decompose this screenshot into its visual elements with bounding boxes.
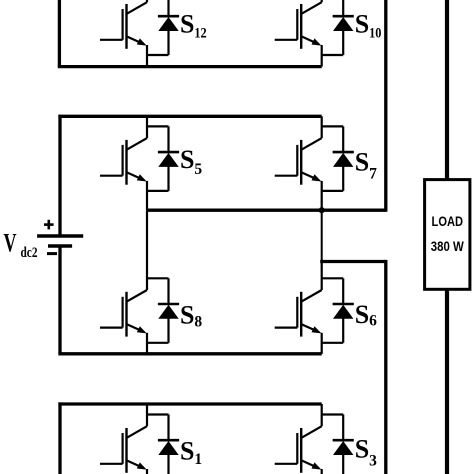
wire top DC rail of middle bridge bbox=[58, 115, 321, 118]
svg-text:S: S bbox=[180, 10, 194, 39]
wire collector of S10 bbox=[321, 0, 323, 2]
wire diode anode lead of S8 bbox=[167, 318, 169, 343]
diode D7 (antiparallel of S7) bbox=[333, 152, 354, 167]
svg-text:S: S bbox=[355, 434, 369, 463]
transistor S12 (IGBT) bbox=[100, 2, 147, 49]
svg-text:380 W: 380 W bbox=[431, 239, 464, 254]
wire collector of S12 bbox=[146, 0, 148, 2]
svg-text:6: 6 bbox=[369, 313, 377, 330]
diode D8 (antiparallel of S8) bbox=[158, 304, 179, 319]
wire load top lead bbox=[445, 0, 449, 181]
wire collector of S8 bbox=[146, 210, 148, 290]
wire left rail of bottom bridge bbox=[58, 402, 61, 474]
svg-text:10: 10 bbox=[369, 26, 381, 42]
wire diode cathode lead of S10 bbox=[342, 0, 344, 16]
wire diode anode lead of S3 bbox=[342, 454, 344, 474]
wire collector node to diode cathode of S1 bbox=[147, 413, 169, 415]
wire collector of S3 bbox=[321, 404, 323, 426]
wire emitter of S3 bbox=[321, 469, 323, 474]
svg-text:dc2: dc2 bbox=[21, 245, 38, 261]
wire diode cathode lead of S1 bbox=[167, 415, 169, 441]
wire load bottom lead bbox=[445, 289, 449, 474]
wire diode anode to emitter of S7 bbox=[322, 190, 344, 192]
wire emitter of S12 bbox=[146, 45, 148, 67]
transistor S10 (IGBT) bbox=[275, 2, 322, 49]
transistor S7 (IGBT) bbox=[275, 138, 322, 185]
diode D6 (antiparallel of S6) bbox=[333, 304, 354, 319]
wire diode anode lead of S1 bbox=[167, 454, 169, 474]
battery V_dc2 bbox=[37, 236, 83, 246]
wire emitter of S5 bbox=[146, 181, 148, 210]
svg-text:V: V bbox=[4, 229, 17, 258]
wire diode cathode lead of S6 bbox=[342, 278, 344, 304]
svg-text:S: S bbox=[355, 300, 369, 329]
transistor S8 (IGBT) bbox=[100, 290, 147, 337]
wire left DC rail of top bridge bbox=[58, 0, 61, 67]
label + terminal bbox=[44, 220, 54, 230]
wire bottom DC rail of top bridge bbox=[58, 65, 322, 68]
wire collector node to diode cathode of S8 bbox=[147, 277, 169, 279]
wire diode anode to emitter of S6 bbox=[322, 342, 344, 344]
wire collector of S1 bbox=[146, 404, 148, 426]
svg-text:S: S bbox=[180, 300, 194, 329]
svg-text:8: 8 bbox=[194, 313, 202, 330]
wire diode anode to emitter of S8 bbox=[147, 342, 169, 344]
wire collector node to diode cathode of S6 bbox=[322, 277, 344, 279]
wire diode cathode lead of S5 bbox=[167, 126, 169, 152]
wire diode cathode lead of S7 bbox=[342, 126, 344, 152]
svg-text:S: S bbox=[180, 145, 194, 174]
wire top DC rail of bottom bridge bbox=[58, 402, 321, 405]
svg-text:1: 1 bbox=[194, 451, 202, 468]
wire collector node to diode cathode of S7 bbox=[322, 125, 344, 127]
wire S6 collector node to rail B bbox=[320, 260, 386, 263]
transistor S1 (IGBT) bbox=[100, 426, 147, 473]
wire collector of S5 bbox=[146, 116, 148, 138]
wire diode anode lead of S10 bbox=[342, 30, 344, 55]
wire left rail lower (battery - to bottom rail) bbox=[58, 246, 61, 354]
diode D10 (antiparallel of S10) bbox=[333, 16, 354, 31]
wire diode anode lead of S6 bbox=[342, 318, 344, 343]
diode D12 (antiparallel of S12) bbox=[158, 16, 179, 31]
transistor S6 (IGBT) bbox=[275, 290, 322, 337]
svg-text:7: 7 bbox=[369, 166, 377, 183]
transistor S5 (IGBT) bbox=[100, 138, 147, 185]
svg-text:5: 5 bbox=[194, 161, 202, 178]
wire emitter of S1 bbox=[146, 469, 148, 474]
wire left rail upper (to battery +) bbox=[58, 115, 61, 237]
wire emitter of S10 bbox=[321, 45, 323, 67]
wire diode anode lead of S12 bbox=[167, 30, 169, 55]
wire diode anode lead of S7 bbox=[342, 166, 344, 191]
transistor S3 (IGBT) bbox=[275, 426, 322, 473]
wire collector node to diode cathode of S3 bbox=[322, 413, 344, 415]
wire mid-point rail of middle bridge bbox=[147, 209, 386, 212]
wire emitter of S6 bbox=[321, 333, 323, 354]
svg-text:LOAD: LOAD bbox=[432, 214, 464, 229]
wire collector of S7 bbox=[321, 116, 323, 138]
wire emitter of S7 bbox=[321, 181, 323, 210]
wire diode cathode lead of S3 bbox=[342, 415, 344, 441]
svg-text:3: 3 bbox=[369, 453, 377, 470]
wire diode anode to emitter of S10 bbox=[322, 54, 344, 56]
svg-text:S: S bbox=[355, 147, 369, 176]
wire diode anode to emitter of S5 bbox=[147, 190, 169, 192]
svg-text:S: S bbox=[355, 10, 369, 39]
label - terminal bbox=[47, 252, 57, 255]
svg-text:S: S bbox=[180, 436, 194, 465]
svg-text:12: 12 bbox=[194, 26, 206, 42]
wire diode anode lead of S5 bbox=[167, 166, 169, 191]
wire collector node to diode cathode of S5 bbox=[147, 125, 169, 127]
wire diode cathode lead of S12 bbox=[167, 0, 169, 16]
wire diode cathode lead of S8 bbox=[167, 278, 169, 304]
wire junction down to S6 collector node bbox=[321, 210, 323, 261]
wire right output rail B (down to bottom bridge) bbox=[384, 260, 387, 474]
diode D1 (antiparallel of S1) bbox=[158, 440, 179, 455]
wire bottom DC rail of middle bridge bbox=[58, 352, 321, 355]
node output junction bbox=[319, 207, 325, 213]
wire diode anode to emitter of S12 bbox=[147, 54, 169, 56]
resistor LOAD box bbox=[425, 180, 470, 290]
wire right output rail A (up to top bridge) bbox=[384, 0, 387, 212]
wire collector of S6 bbox=[321, 262, 323, 291]
wire emitter of S8 bbox=[146, 333, 148, 354]
diode D5 (antiparallel of S5) bbox=[158, 152, 179, 167]
diode D3 (antiparallel of S3) bbox=[333, 440, 354, 455]
